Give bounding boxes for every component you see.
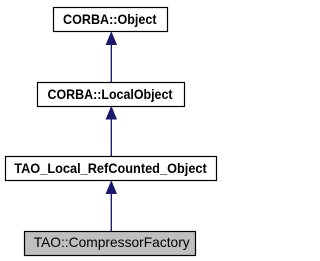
class box CORBA::Object (54, 8, 168, 32)
inheritance arrow: CORBA::LocalObject to CORBA::Object (106, 33, 116, 83)
svg-text:CORBA::Object: CORBA::Object (63, 11, 157, 27)
svg-text:TAO_Local_RefCounted_Object: TAO_Local_RefCounted_Object (14, 160, 207, 176)
svg-text:TAO::CompressorFactory: TAO::CompressorFactory (34, 235, 190, 250)
inheritance arrow: TAO::CompressorFactory to TAO_Local_RefCounted_Object (106, 182, 116, 232)
class box TAO::CompressorFactory (current class, grey) (25, 232, 196, 256)
inheritance arrow: TAO_Local_RefCounted_Object to CORBA::LocalObject (106, 107, 116, 157)
svg-text:CORBA::LocalObject: CORBA::LocalObject (48, 86, 173, 102)
class box CORBA::LocalObject (38, 83, 185, 107)
class box TAO_Local_RefCounted_Object (6, 157, 217, 181)
